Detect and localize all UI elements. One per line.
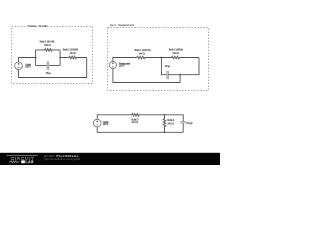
annotation box 1 label	[28, 24, 48, 28]
annotation box 2 (dashed)	[108, 28, 209, 91]
node C dot	[161, 57, 163, 59]
V1 label: Outlet 120 V	[25, 63, 31, 68]
capacitor C2 (Plug right box)	[166, 71, 169, 79]
node B dot	[59, 57, 61, 59]
resistor R5 (Bulb 3)	[132, 114, 165, 117]
node F dot	[164, 131, 166, 133]
logo CIRCUIT	[11, 156, 35, 162]
svg-text:http://circuitlab.com/c/hpj393: http://circuitlab.com/c/hpj393	[44, 157, 80, 161]
svg-text:120 V: 120 V	[103, 124, 109, 126]
wire: right side and bottom return of circuit 1	[19, 58, 87, 78]
resistor R6 (Bulb 4, vertical)	[163, 115, 166, 133]
R3 label: Bulb 1 (100 W) 144 ohm	[135, 48, 151, 55]
svg-text:120 V: 120 V	[119, 66, 125, 68]
resistor R2 (Bulb 2, series)	[60, 56, 87, 59]
logo diamond	[21, 160, 25, 163]
node E dot	[164, 114, 166, 116]
resistor R4 (Bulb 2 right box, top branch)	[161, 56, 199, 59]
C1 label: Plug	[46, 71, 51, 75]
C2 label: Plug	[165, 64, 170, 68]
capacitor C3 (Plug1, right edge)	[180, 122, 186, 123]
voltage source V3 (Outlet, bottom circuit)	[93, 119, 101, 127]
wire: V2 top to R3	[113, 58, 137, 62]
V3 label: Outlet 120 V	[103, 121, 109, 126]
svg-text:LAB: LAB	[26, 160, 34, 164]
footer bar	[0, 153, 220, 165]
V2 label: Power plant 120 V	[119, 63, 131, 68]
logo LAB	[26, 160, 34, 164]
wire: top right to cap	[165, 115, 184, 122]
annotation box 2 label	[110, 23, 134, 27]
voltage source V1 (Outlet)	[15, 62, 23, 70]
svg-text:120 V: 120 V	[25, 66, 31, 68]
wire: cap branch left vertical	[161, 58, 166, 75]
R2 label: Bulb 2 (100W) 144 ohm	[63, 48, 79, 55]
wire: parallel rect left side	[35, 50, 37, 66]
voltage source V2 (Power plant)	[109, 61, 116, 68]
node A dot	[35, 57, 37, 59]
resistor R3 (Bulb 1 right box)	[137, 56, 162, 59]
capacitor C1 (Plug, bottom branch)	[36, 64, 61, 66]
C3 label: Plug1	[187, 121, 194, 125]
logo rule line	[7, 154, 38, 156]
R1 label: Bulb 1 (60 W) 240 ohm	[40, 40, 55, 47]
credit line 1	[44, 154, 79, 158]
wire: top of bottom circuit	[97, 115, 131, 119]
R6 label: Bulb 4 240 ohm	[167, 118, 174, 125]
wire: parallel rect right side	[59, 50, 61, 66]
wire: V1 top to node A	[19, 58, 36, 62]
logo zigzag	[9, 161, 20, 163]
annotation box 1 (dashed)	[12, 27, 93, 84]
annotation box 1 label backing	[27, 24, 49, 28]
credit line 2	[44, 157, 80, 161]
wire: bottom return of bottom circuit	[97, 127, 183, 132]
R4 label: Bulb 2 (60W) 240 ohm	[169, 48, 183, 55]
R5 label: Bulb 3 144 ohm	[131, 117, 138, 124]
resistor R1 (Bulb 1, top branch)	[36, 49, 61, 52]
wire: return path to V2	[113, 69, 180, 83]
node D dot (return tap)	[179, 74, 181, 76]
